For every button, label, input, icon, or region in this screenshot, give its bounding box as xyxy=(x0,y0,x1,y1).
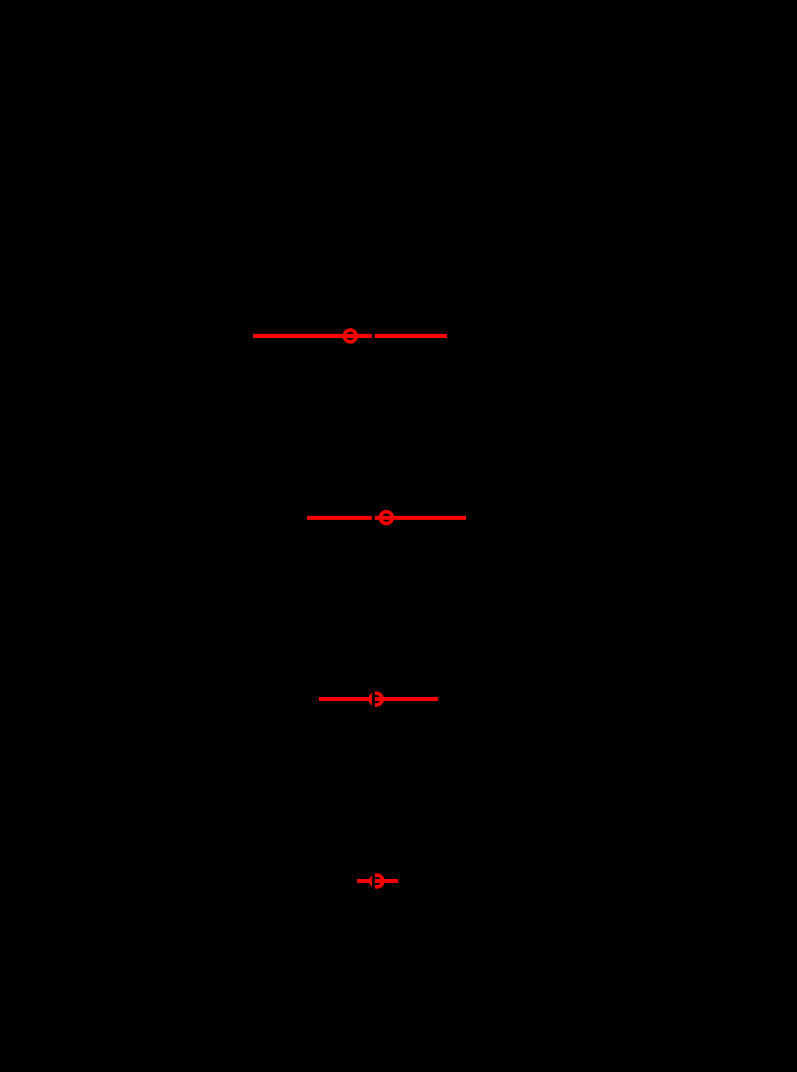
vertical reference line (black, drawn on top) xyxy=(372,240,375,990)
errorbar CI line row 4 xyxy=(357,879,398,883)
marker open circle row 3 xyxy=(370,693,382,705)
errorbar CI line row 1 xyxy=(253,334,447,338)
marker open circle row 4 xyxy=(371,875,383,887)
marker open circle row 2 xyxy=(380,512,392,524)
marker open circle row 1 xyxy=(344,330,356,342)
errorbar CI line row 3 xyxy=(319,697,438,701)
errorbar CI line row 2 xyxy=(307,516,466,520)
